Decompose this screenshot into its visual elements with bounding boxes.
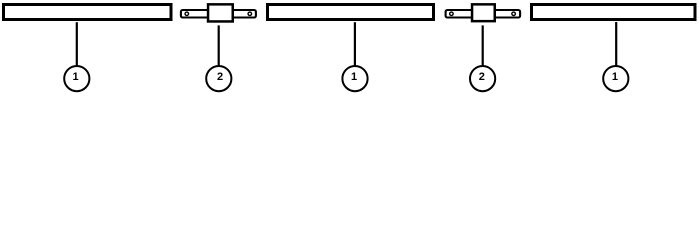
bar item 1 (left) — [4, 5, 172, 20]
node balloon 2 (right) — [470, 66, 495, 91]
wire leader line to balloon 2 (right) — [482, 25, 484, 67]
wire leader line to balloon 1 (middle) — [354, 22, 356, 67]
node balloon 2 (left) — [206, 66, 231, 91]
wire leader line to balloon 1 (left) — [76, 22, 78, 67]
svg-text:1: 1 — [351, 71, 357, 83]
svg-text:1: 1 — [73, 71, 79, 83]
link item 2 (left): left eye bar — [181, 10, 209, 18]
svg-text:2: 2 — [217, 71, 223, 83]
wire leader line to balloon 1 (right) — [615, 22, 617, 67]
link item 2 (right): center block — [472, 4, 495, 21]
wire leader line to balloon 2 (left) — [218, 25, 220, 67]
link item 2 (left): right eye bar — [230, 10, 256, 18]
node balloon 1 (middle) — [342, 66, 367, 91]
svg-text:2: 2 — [479, 71, 485, 83]
node balloon 1 (left) — [64, 66, 89, 91]
node balloon 1 (right) — [603, 66, 628, 91]
link item 2 (right): right eye bar — [493, 10, 521, 18]
bar item 1 (middle) — [268, 5, 434, 20]
link item 2 (right): left eye bar — [446, 10, 474, 18]
bar item 1 (right) — [532, 5, 696, 20]
link item 2 (left): center block — [208, 4, 233, 21]
svg-text:1: 1 — [612, 71, 618, 83]
